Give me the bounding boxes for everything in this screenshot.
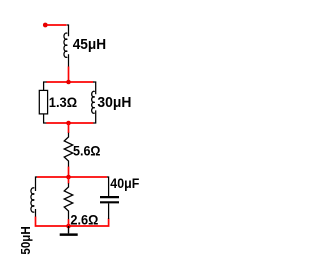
resistor R3 2.6 Ohm (zigzag) (64, 183, 73, 219)
svg-text:2.6Ω: 2.6Ω (70, 213, 98, 229)
svg-text:30μH: 30μH (97, 95, 131, 111)
svg-text:50μH: 50μH (18, 226, 33, 254)
ground (60, 226, 78, 235)
resistor R1 1.3 Ohm (box) (39, 82, 47, 123)
capacitor C1 40uF (100, 177, 119, 219)
wire: junction down to R2 (68, 123, 70, 133)
inductor L3 50uH (31, 177, 37, 217)
terminal node (input) (43, 23, 48, 28)
svg-text:1.3Ω: 1.3Ω (49, 95, 77, 111)
inductor L1 45uH (64, 25, 69, 67)
wire: parallel section top rail (46, 81, 93, 83)
node: junction top of parallel RL (66, 80, 71, 85)
svg-text:40μF: 40μF (110, 176, 139, 192)
inductor L2 30uH (92, 82, 96, 123)
node: junction bottom of parallel RL (66, 121, 71, 126)
wire: L3 bottom + bottom rail + capacitor side (36, 217, 109, 226)
resistor R2 5.6 Ohm (zigzag) (64, 133, 73, 167)
wire: terminal to L1 (47, 24, 67, 26)
node: junction top rail (66, 175, 71, 180)
wire: R2 bottom to bottom-section top rail (68, 167, 70, 177)
svg-text:45μH: 45μH (73, 37, 106, 53)
wire: R3 bottom into bottom rail (68, 219, 70, 226)
svg-text:5.6Ω: 5.6Ω (73, 143, 101, 159)
node: junction bottom rail (66, 224, 71, 229)
wire: parallel section bottom rail (46, 122, 93, 124)
wire: L1 to parallel top (68, 67, 70, 83)
wire: top of R3 (68, 177, 70, 184)
wire: bottom section top rail (37, 176, 107, 178)
